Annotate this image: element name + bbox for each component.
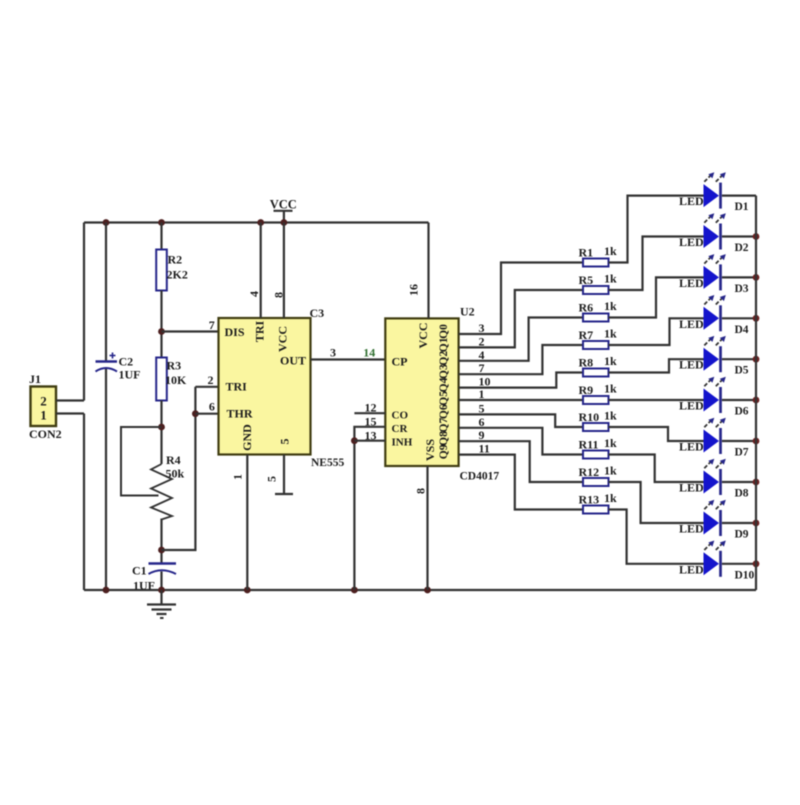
svg-text:R8: R8 xyxy=(579,356,594,370)
svg-text:R5: R5 xyxy=(579,273,594,287)
svg-text:3: 3 xyxy=(330,346,336,360)
svg-text:NE555: NE555 xyxy=(311,457,344,469)
svg-text:D2: D2 xyxy=(735,242,749,254)
wire: D7 cathode to rail xyxy=(722,440,756,442)
svg-text:OUT: OUT xyxy=(280,354,306,368)
svg-text:R12: R12 xyxy=(579,465,600,479)
svg-text:10K: 10K xyxy=(165,373,187,387)
svg-text:1: 1 xyxy=(231,474,245,480)
svg-text:9: 9 xyxy=(479,428,485,442)
svg-text:Q2: Q2 xyxy=(438,351,450,366)
svg-text:11: 11 xyxy=(479,442,490,456)
svg-text:VCC: VCC xyxy=(270,198,297,212)
wire: CD4017 pin 6 (Q7) to R11 xyxy=(459,428,583,455)
svg-text:D7: D7 xyxy=(735,447,749,459)
LED D8 xyxy=(679,459,749,500)
svg-text:1: 1 xyxy=(40,408,47,423)
wire: J1 pin1 drop to ground rail xyxy=(83,414,85,591)
wire: D1 cathode to rail xyxy=(722,195,756,197)
svg-text:LED: LED xyxy=(679,276,704,290)
svg-text:1k: 1k xyxy=(604,327,617,341)
LED D1 xyxy=(679,172,749,213)
wire: D6 cathode to rail xyxy=(722,399,756,401)
node: rail junction D8 xyxy=(753,479,760,486)
svg-text:CO: CO xyxy=(392,410,409,422)
wire: INH pin 13 stub xyxy=(354,440,385,442)
svg-text:R9: R9 xyxy=(579,383,594,397)
wire: 555 pin 5 NC stub xyxy=(275,455,293,495)
svg-text:C1: C1 xyxy=(132,564,147,578)
LED D10 xyxy=(679,541,755,582)
connector J1 CON2 xyxy=(29,372,62,441)
node: DIS junction xyxy=(158,328,165,335)
svg-text:1k: 1k xyxy=(604,436,617,450)
svg-text:Q8: Q8 xyxy=(438,431,450,446)
node: THR junction xyxy=(192,410,199,417)
wire: D4 cathode to rail xyxy=(722,317,756,319)
svg-text:6: 6 xyxy=(209,400,215,414)
node: rail junction D6 xyxy=(753,397,760,404)
wire: CD4017 pin 8 VSS drop xyxy=(426,466,428,590)
svg-text:R1: R1 xyxy=(579,246,594,260)
svg-text:Q3: Q3 xyxy=(438,364,450,379)
svg-text:4: 4 xyxy=(479,348,485,362)
svg-text:6: 6 xyxy=(479,415,485,429)
svg-text:D8: D8 xyxy=(735,488,749,500)
svg-text:1k: 1k xyxy=(604,382,617,396)
svg-text:R3: R3 xyxy=(167,359,182,373)
wire: CD4017 pin 5 (Q6) to R10 xyxy=(459,414,583,427)
svg-text:1k: 1k xyxy=(604,354,617,368)
resistor R10 1k xyxy=(579,409,618,432)
svg-text:LED: LED xyxy=(679,440,704,454)
VCC power symbol xyxy=(270,198,297,223)
svg-text:THR: THR xyxy=(227,407,253,421)
svg-text:5: 5 xyxy=(278,439,292,445)
svg-text:1k: 1k xyxy=(604,491,617,505)
wire: TRI pin 2 stub xyxy=(195,386,219,388)
wire: C2 branch lower segment xyxy=(105,369,107,590)
wire: D8 cathode to rail xyxy=(722,481,756,483)
LED D5 xyxy=(679,336,749,377)
svg-text:TRI: TRI xyxy=(226,380,248,394)
wire: CD4017 pin 3 (Q0) to R1 xyxy=(459,263,583,335)
svg-text:VSS: VSS xyxy=(423,439,437,461)
node: rail junction D2 xyxy=(753,233,760,240)
svg-text:Q4: Q4 xyxy=(438,377,450,392)
node: rail junction D9 xyxy=(753,520,760,527)
svg-text:1UF: 1UF xyxy=(119,368,141,382)
wire: R7 to LED D4 xyxy=(609,318,704,345)
wire: 555 pin 4 to top rail xyxy=(260,223,262,319)
svg-text:D1: D1 xyxy=(735,201,749,213)
LED D3 xyxy=(679,254,749,295)
wire: THR pin 6 stub xyxy=(195,413,219,415)
node: rail junction D7 xyxy=(753,438,760,445)
svg-text:LED: LED xyxy=(679,358,704,372)
wire: CD4017 pin 4 (Q2) to R6 xyxy=(459,318,583,361)
wire: CD4017 pin 9 (Q8) to R12 xyxy=(459,441,583,482)
svg-text:LED: LED xyxy=(679,235,704,249)
svg-text:2K2: 2K2 xyxy=(167,268,188,282)
wire: R1 to LED D1 xyxy=(609,196,704,263)
wire: R3 to R4 xyxy=(160,401,162,465)
resistor R12 1k xyxy=(579,464,618,487)
svg-text:2: 2 xyxy=(40,394,47,409)
svg-text:GND: GND xyxy=(240,424,254,451)
CD4017 output labels Q0-Q9 xyxy=(438,324,450,459)
svg-text:VCC: VCC xyxy=(416,323,430,349)
svg-text:C3: C3 xyxy=(310,306,325,320)
wire: R8 to LED D5 xyxy=(609,359,704,372)
wire: CR pin 15 to ground drop xyxy=(354,427,385,590)
wire: R10 to LED D7 xyxy=(609,427,704,441)
wire: CD4017 pin 7 (Q3) to R7 xyxy=(459,345,583,374)
resistor R1 1k xyxy=(579,244,618,267)
wire: CD4017 pin 10 (Q4) to R8 xyxy=(459,373,583,388)
svg-text:1k: 1k xyxy=(604,464,617,478)
svg-text:LED: LED xyxy=(679,522,704,536)
svg-text:R7: R7 xyxy=(579,328,594,342)
svg-text:1k: 1k xyxy=(604,409,617,423)
svg-text:Q9: Q9 xyxy=(438,444,450,459)
svg-text:C2: C2 xyxy=(119,355,134,369)
svg-text:CD4017: CD4017 xyxy=(460,471,500,483)
wire: VCC top rail xyxy=(84,221,429,223)
wire: J1 pin2 riser to top rail xyxy=(83,223,85,401)
resistor R2 2K2 xyxy=(156,250,188,291)
wire: R4 bottom to THR/TRI riser xyxy=(162,387,196,550)
svg-text:15: 15 xyxy=(365,414,377,428)
resistor R5 1k xyxy=(579,272,618,295)
wire: top rail to R2 xyxy=(160,223,162,250)
wire: R5 to LED D2 xyxy=(609,237,704,291)
svg-text:5: 5 xyxy=(265,476,279,482)
svg-text:3: 3 xyxy=(479,321,485,335)
wire: R12 to LED D9 xyxy=(609,482,704,523)
wire: CO pin 12 stub xyxy=(354,412,385,414)
resistor R9 1k xyxy=(579,382,618,405)
svg-text:J1: J1 xyxy=(29,372,41,386)
svg-text:LED: LED xyxy=(679,399,704,413)
svg-text:U2: U2 xyxy=(460,305,475,319)
wire: D9 cathode to rail xyxy=(722,522,756,524)
wire: CD4017 pin 2 (Q1) to R5 xyxy=(459,290,583,347)
resistor R7 1k xyxy=(579,327,618,350)
wire: CD4017 pin 16 to top rail xyxy=(427,223,429,319)
wire: 555 pin 8 to top rail xyxy=(283,223,285,319)
node: top rail junction dots xyxy=(103,219,288,226)
wire: D2 cathode to rail xyxy=(722,235,756,237)
svg-text:14: 14 xyxy=(363,346,375,360)
svg-text:LED: LED xyxy=(679,481,704,495)
svg-text:R13: R13 xyxy=(579,493,600,507)
node: INH junction xyxy=(351,437,358,444)
wire: R2 to R3 xyxy=(160,291,162,358)
wire: D3 cathode to rail xyxy=(722,276,756,278)
svg-text:VCC: VCC xyxy=(276,326,290,352)
svg-text:8: 8 xyxy=(272,292,286,298)
svg-text:1: 1 xyxy=(479,387,485,401)
svg-text:Q6: Q6 xyxy=(438,404,450,419)
svg-text:D10: D10 xyxy=(735,569,755,581)
svg-text:LED: LED xyxy=(679,317,704,331)
svg-text:4: 4 xyxy=(247,291,261,297)
wire: OUT pin3 to CP pin14 xyxy=(311,358,386,360)
svg-text:D4: D4 xyxy=(735,324,749,336)
svg-text:TRI: TRI xyxy=(253,321,267,343)
LED D4 xyxy=(679,295,749,336)
svg-text:D5: D5 xyxy=(735,365,749,377)
svg-text:D6: D6 xyxy=(735,406,749,418)
svg-text:12: 12 xyxy=(365,401,377,415)
svg-text:INH: INH xyxy=(392,437,413,449)
svg-text:1k: 1k xyxy=(604,272,617,286)
svg-text:1k: 1k xyxy=(604,299,617,313)
LED D7 xyxy=(679,418,749,459)
wire: D10 cathode to rail xyxy=(722,563,756,565)
resistor R13 1k xyxy=(579,491,618,514)
svg-text:DIS: DIS xyxy=(225,325,245,339)
resistor R8 1k xyxy=(579,354,618,377)
svg-text:CR: CR xyxy=(392,423,409,435)
svg-text:16: 16 xyxy=(407,284,421,296)
svg-text:13: 13 xyxy=(365,429,377,443)
wire: J1 pin 1 stub xyxy=(56,412,84,414)
wire: R9 to LED D6 xyxy=(609,399,704,401)
wire: LED cathode rail to ground xyxy=(755,196,757,590)
wire: R13 to LED D10 xyxy=(609,510,704,564)
node: R4 top junction xyxy=(158,424,165,431)
capacitor C1 1UF xyxy=(132,564,176,593)
wire: C2 branch upper segment xyxy=(105,223,107,362)
resistor R11 1k xyxy=(579,436,618,459)
svg-text:CON2: CON2 xyxy=(29,427,62,441)
wire: J1 pin 2 stub xyxy=(56,399,84,401)
resistor R3 10K xyxy=(156,358,187,401)
svg-text:Q1: Q1 xyxy=(438,337,450,352)
wire: C1 to ground rail xyxy=(160,572,162,591)
svg-text:LED: LED xyxy=(679,562,704,576)
svg-text:R4: R4 xyxy=(166,453,181,467)
svg-text:Q5: Q5 xyxy=(438,391,450,406)
svg-text:7: 7 xyxy=(479,361,485,375)
svg-text:CP: CP xyxy=(392,355,408,369)
wire: R4 to C1 xyxy=(160,519,162,564)
svg-text:R10: R10 xyxy=(579,410,600,424)
wire: CD4017 pin 1 (Q5) to R9 xyxy=(459,399,583,401)
wire: DIS net to pin 7 xyxy=(162,330,220,332)
node: ground rail junction dots xyxy=(103,587,431,594)
resistor R6 1k xyxy=(579,299,618,322)
svg-text:1k: 1k xyxy=(604,244,617,258)
wire: R6 to LED D3 xyxy=(609,277,704,317)
IC U2 CD4017 xyxy=(385,318,458,466)
node: rail junction D3 xyxy=(753,274,760,281)
capacitor C2 1UF (polarized) xyxy=(96,353,141,382)
svg-text:LED: LED xyxy=(679,194,704,208)
svg-text:5: 5 xyxy=(479,401,485,415)
LED D6 xyxy=(679,377,749,418)
potentiometer R4 50k xyxy=(121,427,185,520)
svg-text:Q7: Q7 xyxy=(438,417,450,432)
wire: D5 cathode to rail xyxy=(722,358,756,360)
wire: 555 pin 1 GND drop xyxy=(246,455,248,591)
svg-text:Q0: Q0 xyxy=(438,324,450,339)
node: rail junction D10 xyxy=(753,560,760,567)
LED D9 xyxy=(679,500,749,541)
wire: CD4017 pin 11 (Q9) to R13 xyxy=(459,455,583,510)
svg-text:2: 2 xyxy=(208,373,214,387)
svg-text:D3: D3 xyxy=(735,283,749,295)
svg-text:7: 7 xyxy=(209,318,215,332)
svg-text:50k: 50k xyxy=(166,467,185,481)
node: rail junction D5 xyxy=(753,356,760,363)
wire: R11 to LED D8 xyxy=(609,455,704,483)
svg-text:R11: R11 xyxy=(579,438,599,452)
wire: ground rail (bottom) xyxy=(84,589,756,591)
op-amp/timer U1 NE555 xyxy=(219,306,345,469)
node: R4 bottom junction xyxy=(158,547,165,554)
LED D2 xyxy=(679,213,749,254)
svg-text:R2: R2 xyxy=(168,253,183,267)
svg-text:8: 8 xyxy=(414,488,428,494)
svg-text:2: 2 xyxy=(479,334,485,348)
ground symbol xyxy=(147,590,176,618)
svg-text:R6: R6 xyxy=(579,301,594,315)
node: rail junction D4 xyxy=(753,315,760,322)
svg-text:D9: D9 xyxy=(735,529,749,541)
